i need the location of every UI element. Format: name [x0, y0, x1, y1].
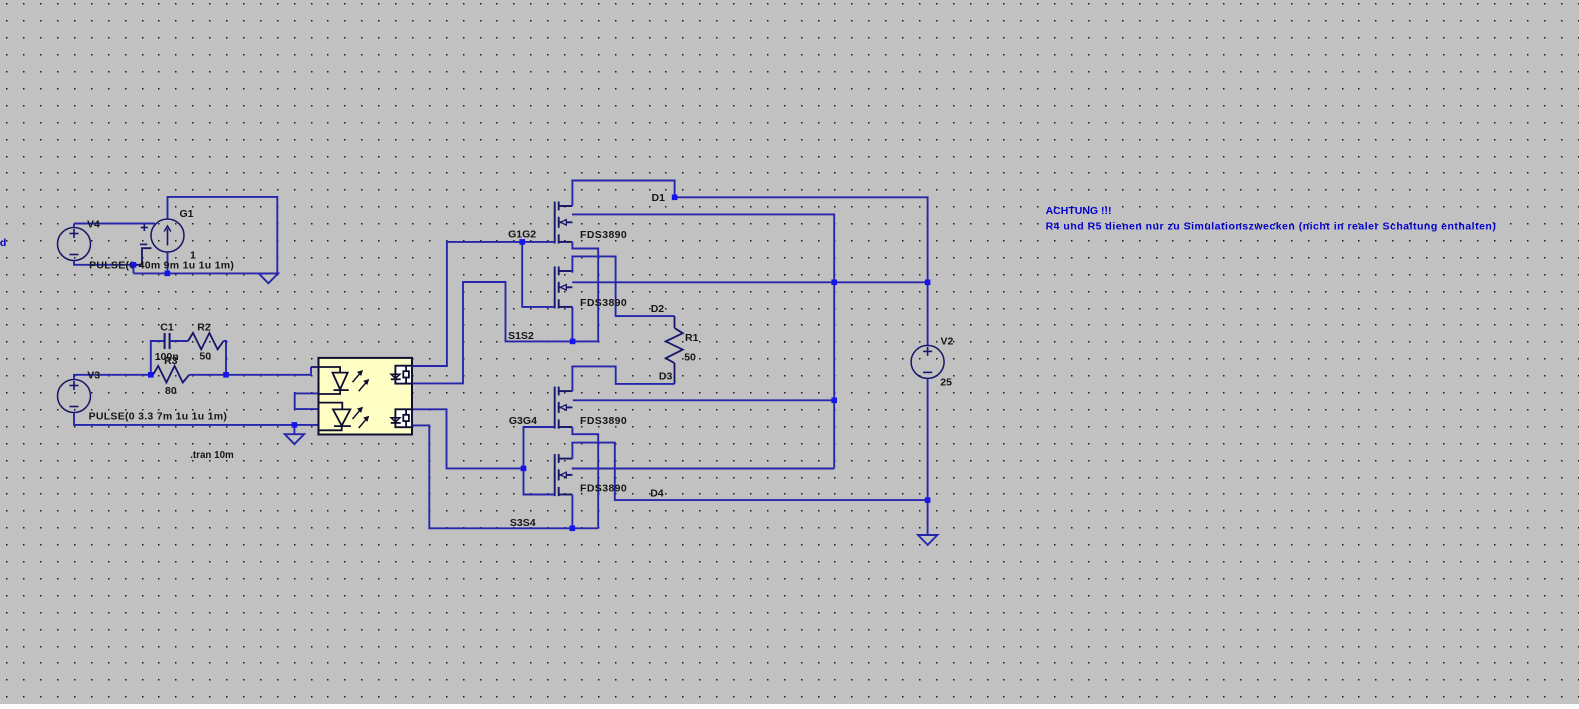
svg-text:R2: R2: [197, 322, 211, 334]
svg-text:FDS3890: FDS3890: [580, 297, 627, 309]
svg-text:80: 80: [165, 385, 177, 397]
svg-text:50: 50: [684, 351, 696, 363]
svg-text:C1: C1: [160, 322, 174, 334]
svg-text:S3S4: S3S4: [510, 517, 536, 529]
svg-text:FDS3890: FDS3890: [580, 229, 627, 241]
svg-text:.tran 10m: .tran 10m: [190, 450, 234, 461]
svg-text:ACHTUNG !!!: ACHTUNG !!!: [1046, 205, 1112, 217]
svg-text:R1: R1: [685, 332, 699, 344]
svg-text:50: 50: [199, 350, 211, 362]
svg-text:G3G4: G3G4: [509, 415, 537, 427]
svg-text:D1: D1: [652, 192, 666, 204]
svg-text:V4: V4: [87, 219, 100, 231]
svg-text:PULSE(0 40m 9m 1u 1u 1m): PULSE(0 40m 9m 1u 1u 1m): [89, 259, 234, 271]
svg-text:D3: D3: [659, 370, 673, 382]
svg-text:G1: G1: [180, 208, 194, 220]
svg-text:FDS3890: FDS3890: [580, 482, 627, 494]
svg-text:nd: nd: [0, 237, 6, 249]
svg-text:V3: V3: [87, 370, 100, 382]
svg-text:R4 und R5 dienen nur zu Simula: R4 und R5 dienen nur zu Simulationszweck…: [1046, 220, 1497, 232]
svg-text:S1S2: S1S2: [508, 330, 534, 342]
svg-text:G1G2: G1G2: [508, 229, 536, 241]
svg-text:D4: D4: [650, 488, 664, 500]
svg-text:25: 25: [940, 377, 952, 389]
svg-text:FDS3890: FDS3890: [580, 415, 627, 427]
svg-text:R3: R3: [164, 355, 178, 367]
svg-text:V2: V2: [941, 335, 954, 347]
svg-text:D2: D2: [651, 303, 665, 315]
svg-text:PULSE(0 3.3 7m 1u 1u 1m): PULSE(0 3.3 7m 1u 1u 1m): [89, 411, 228, 423]
